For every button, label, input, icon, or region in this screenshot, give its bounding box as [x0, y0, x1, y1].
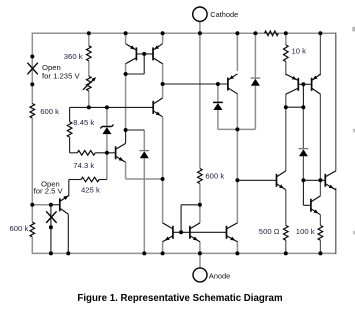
wire driver collector: [319, 180, 321, 196]
junction node K D4 anode: [301, 178, 305, 182]
svg-text:Anode: Anode: [209, 271, 230, 280]
pnp Q5: [227, 78, 229, 91]
wire open2 branch: [50, 205, 52, 254]
junction Q1-Q2 base tie: [142, 52, 146, 56]
svg-text:425 k: 425 k: [81, 185, 100, 194]
junction top rail Q1 emitter: [124, 31, 128, 35]
resistor R9 100k: [318, 225, 323, 240]
wire npn2 emitter: [125, 162, 127, 179]
svg-text:74.3 k: 74.3 k: [73, 161, 94, 170]
svg-text:8.45 k: 8.45 k: [73, 118, 94, 127]
wire cathode stub: [199, 21, 201, 33]
junction node C Q4 collector: [124, 128, 128, 132]
junction node B Q3 collector: [161, 82, 165, 86]
junction bottom rail open2: [49, 251, 53, 255]
svg-text:Cathode: Cathode: [210, 10, 238, 19]
pnp Q2 mirror-right: [152, 47, 154, 60]
svg-text:for 1.235 V: for 1.235 V: [42, 71, 80, 80]
anode terminal: [193, 268, 207, 282]
junction node A zener: [105, 105, 109, 109]
wire cathode vertical: [199, 33, 201, 168]
wire zener to 74.3k node: [106, 134, 108, 153]
wire trio left collector: [162, 179, 164, 223]
svg-text:for 2.5 V: for 2.5 V: [34, 187, 64, 196]
open mark for 2.5V: [46, 211, 56, 223]
junction node A trim: [87, 105, 91, 109]
diode D4: [299, 148, 309, 150]
diode D2: [251, 77, 261, 79]
junction node F mirror tie: [198, 203, 202, 207]
npn Q8 trio-mid: [189, 226, 191, 239]
resistor R7 series: [265, 31, 279, 36]
junction bottom rail Q6 collector: [66, 251, 70, 255]
svg-text:Figure 1. Representative Schem: Figure 1. Representative Schematic Diagr…: [77, 293, 283, 304]
wire mirror left collector: [125, 64, 127, 75]
wire 500ohm bottom lead: [285, 240, 287, 253]
wire trio bases: [173, 231, 227, 233]
wire 8.45k branch: [69, 107, 71, 121]
junction top rail Q2 emitter: [161, 31, 165, 35]
junction bottom rail R8: [284, 251, 288, 255]
wire diode D3 branch: [143, 130, 145, 151]
npn Q4: [115, 146, 117, 159]
resistor R4 8.45k: [67, 122, 72, 137]
wire anode stub: [199, 253, 201, 268]
junction open2 lower: [49, 225, 53, 229]
junction bottom rail anode: [198, 251, 202, 255]
wire pnpRL collector: [285, 94, 287, 107]
wire diode D2 leads: [254, 33, 256, 78]
resistor R5 74.3k: [77, 151, 95, 156]
junction node G open2: [49, 203, 53, 207]
npn Q12 output-left: [276, 174, 278, 187]
resistor R6 10k: [284, 45, 289, 62]
npn Q9 trio-right: [226, 226, 228, 239]
wire trio mirror tie: [180, 205, 182, 233]
svg-text:600 k: 600 k: [10, 224, 29, 233]
wire npn1 collector: [162, 84, 164, 98]
junction node J Q10 collector: [284, 105, 288, 109]
wire pnpRR emitter: [319, 33, 321, 75]
wire D4 branch: [302, 107, 304, 148]
wire mirror bases tie: [136, 53, 153, 55]
edge artifact marks: [352, 27, 355, 32]
wire 100k bottom lead: [319, 240, 321, 253]
wire 425k left lead: [69, 179, 81, 181]
junction bottom rail Q7 emitter: [161, 251, 165, 255]
junction node D D1-D2: [235, 127, 239, 131]
resistor R11 600k: [30, 222, 35, 237]
svg-text:500 Ω: 500 Ω: [259, 227, 280, 236]
wire trim to node: [88, 91, 90, 108]
wire npn1 emitter: [162, 117, 164, 179]
wire mirror left emitter: [125, 33, 127, 43]
resistor R10 425k: [81, 177, 99, 182]
junction open1 lower: [30, 82, 34, 86]
wire q2.5 emitter up: [68, 180, 70, 197]
wire qout2 emitter: [285, 190, 287, 226]
svg-text:360 k: 360 k: [64, 52, 83, 61]
pnp Q1 mirror-left: [135, 47, 137, 60]
junction bottom rail R9: [318, 251, 322, 255]
wire npn2 collector: [125, 130, 127, 143]
wire mirror right collector: [162, 33, 164, 43]
cathode terminal: [193, 7, 207, 21]
junction node G left: [30, 203, 34, 207]
junction top rail Q5 emitter: [235, 31, 239, 35]
junction bottom rail Q9 emitter: [235, 251, 239, 255]
svg-text:600 k: 600 k: [40, 107, 59, 116]
wire 600k mid to node: [199, 184, 201, 224]
resistor R12 600k: [198, 169, 203, 184]
pnp Q10 right-mirror-left: [297, 78, 299, 91]
junction node J tie: [301, 105, 305, 109]
wire zener branch: [106, 107, 108, 126]
wire driver emitter: [319, 215, 321, 226]
wire pnpRR collector: [319, 94, 321, 180]
wire trio right emitter: [236, 242, 238, 254]
wire diode D1 leads: [217, 84, 219, 102]
junction node K Q14 collector: [318, 178, 322, 182]
wire mirror node down: [125, 74, 127, 130]
wire q2.5 collector down: [67, 214, 69, 253]
wire 360k branch top: [88, 33, 90, 46]
junction Q1 collector-base: [124, 72, 128, 76]
node 2.5V row: [32, 204, 51, 206]
diode D1: [213, 101, 223, 103]
wire 10k top lead: [285, 33, 287, 45]
npn Q6 for-2.5V: [59, 198, 61, 211]
wire pnp3 emitter: [236, 33, 238, 71]
wire 74.3k leads: [70, 152, 78, 154]
wire 425k right lead: [106, 153, 108, 180]
junction trio bases: [179, 230, 183, 234]
npn Q14 driver: [310, 199, 312, 212]
resistor R8 500ohm: [284, 225, 289, 240]
open mark for 1.235V: [27, 63, 37, 75]
svg-text:10 k: 10 k: [292, 46, 307, 55]
wire right edge top: [335, 33, 337, 171]
wire trio left emitter: [162, 242, 164, 254]
node collector row: [163, 83, 228, 85]
svg-text:100 k: 100 k: [296, 227, 315, 236]
wire qout2 collector: [285, 107, 287, 171]
resistor R3 600k: [30, 104, 35, 119]
zener diode D5: [102, 126, 112, 128]
wire right mirror tie: [298, 83, 311, 85]
junction Q10-Q11 base tie: [301, 82, 305, 86]
junction top rail Q11 emitter: [318, 31, 322, 35]
junction top rail R6: [284, 31, 288, 35]
wire pnp3 collector: [236, 94, 238, 224]
junction top rail R1: [87, 31, 91, 35]
trim resistor R2: [87, 76, 92, 91]
wire right edge bottom: [335, 188, 337, 254]
npn Q13 output-right: [324, 174, 326, 187]
wire trio mid emitter: [199, 242, 201, 254]
pnp Q11 right-mirror-right: [311, 78, 313, 91]
wire 10k to pnp emitter: [285, 62, 287, 76]
junction bottom rail D3 anode: [142, 251, 146, 255]
node base row left: [70, 106, 154, 108]
resistor R1 360k: [87, 46, 92, 61]
npn Q3: [152, 101, 154, 114]
diode D3: [139, 150, 149, 152]
node output base row: [237, 179, 276, 181]
wire driver base L: [302, 180, 304, 205]
wire left branch: [31, 33, 33, 104]
junction Q4 emitter: [161, 177, 165, 181]
wire top rail: [32, 32, 336, 34]
junction top rail cathode: [198, 31, 202, 35]
junction node H output base: [235, 178, 239, 182]
wire 360k to trim: [88, 61, 90, 76]
junction node B D1: [216, 82, 220, 86]
node right mirror diode conn: [286, 106, 304, 108]
node driver base row: [303, 179, 325, 181]
npn Q7 trio-left: [172, 226, 174, 239]
svg-text:600 k: 600 k: [205, 171, 224, 180]
wire bottom rail: [32, 252, 336, 254]
junction open1 upper: [30, 55, 34, 59]
junction top rail D2: [253, 31, 257, 35]
junction node E zener anode: [105, 151, 109, 155]
